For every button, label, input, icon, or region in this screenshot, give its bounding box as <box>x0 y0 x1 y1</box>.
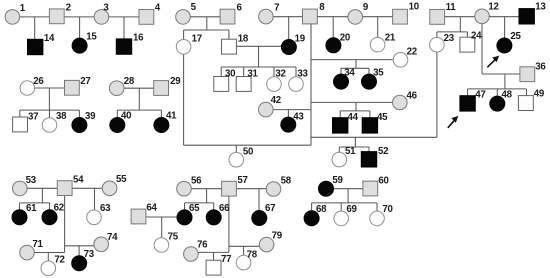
svg-text:66: 66 <box>219 203 230 214</box>
wire drop to 65 <box>184 203 186 218</box>
wire drop to 15 <box>79 17 81 46</box>
sibship 65-66 drop <box>206 189 208 203</box>
svg-text:47: 47 <box>475 89 485 100</box>
svg-text:68: 68 <box>316 204 327 215</box>
person 67 (female, affected) <box>252 203 275 226</box>
svg-text:59: 59 <box>332 175 343 186</box>
svg-text:14: 14 <box>44 33 55 44</box>
wire drop to 51 <box>338 147 340 160</box>
svg-text:49: 49 <box>534 88 545 99</box>
proband arrow pointing to 47 <box>448 116 459 128</box>
person 9 (female, carrier) <box>348 2 369 24</box>
couple stem below 57 <box>228 189 230 253</box>
person 43 (female, affected) <box>281 112 305 133</box>
svg-text:63: 63 <box>100 203 111 214</box>
couple line 26-27 <box>27 87 72 89</box>
svg-text:8: 8 <box>319 2 325 13</box>
svg-text:7: 7 <box>274 2 279 13</box>
svg-text:10: 10 <box>409 2 419 13</box>
person 7 (female, carrier) <box>259 2 280 24</box>
person 8 (male, carrier) <box>303 2 326 24</box>
person 74 (female, carrier) <box>94 232 118 252</box>
person 77 (male, unaffected) <box>206 254 231 275</box>
person 68 (female, affected) <box>304 204 327 226</box>
svg-text:22: 22 <box>407 46 417 57</box>
wire drop to 34 <box>340 68 342 81</box>
person 21 (female, unaffected) <box>370 33 396 52</box>
person 33 (female, unaffected) <box>289 68 309 91</box>
wire drop to 21 <box>377 17 379 45</box>
person 65 (female, affected) <box>177 203 200 225</box>
person 50 (female, unaffected) <box>229 147 253 168</box>
wire drop to 45 <box>369 111 371 126</box>
svg-text:25: 25 <box>510 31 521 42</box>
person 63 (female, unaffected) <box>87 203 111 225</box>
svg-text:67: 67 <box>265 203 275 214</box>
person 58 (female, carrier) <box>266 175 292 196</box>
wire drop to 75 <box>161 217 163 245</box>
sibship 40-41 drop <box>138 88 140 110</box>
svg-text:69: 69 <box>346 204 357 215</box>
svg-text:27: 27 <box>80 76 90 87</box>
wire drop to 25 <box>504 17 506 46</box>
sibship 44-45 bar <box>340 110 370 112</box>
svg-text:77: 77 <box>221 254 231 265</box>
person 59 (female, affected) <box>319 175 344 196</box>
svg-text:79: 79 <box>272 231 283 242</box>
wire drop to 69 <box>340 203 342 219</box>
svg-text:64: 64 <box>146 202 157 213</box>
svg-text:11: 11 <box>446 2 457 13</box>
wire drop to 40 <box>116 110 118 125</box>
person 70 (female, unaffected) <box>370 204 393 226</box>
person 23 (female, unaffected) <box>430 33 455 52</box>
svg-text:17: 17 <box>192 33 202 44</box>
person 55 (female, carrier) <box>102 174 127 196</box>
wire drop to 43 <box>287 110 289 125</box>
svg-text:75: 75 <box>168 232 179 243</box>
wire drop to 68 <box>311 203 313 218</box>
wire drop to 62 <box>49 203 51 217</box>
wire drop to 33 <box>295 67 297 84</box>
svg-text:44: 44 <box>348 112 359 123</box>
sibship 17-18 bar <box>184 29 229 31</box>
sibship 51-52 drop <box>354 137 356 147</box>
couple line 7-8-9-10 <box>266 16 400 18</box>
wire drop to 49 <box>526 89 528 103</box>
wire drop to 35 <box>368 68 370 81</box>
couple line 57-79 <box>229 245 267 247</box>
couple path 8-23 <box>311 45 437 138</box>
couple line 54-71 <box>27 252 65 254</box>
person 19 (female, affected) <box>281 33 305 54</box>
svg-text:16: 16 <box>133 32 144 43</box>
sibship 30-33 bar <box>221 66 296 68</box>
wire drop to 63 <box>94 188 96 217</box>
svg-text:43: 43 <box>293 112 304 123</box>
wire drop to 19 <box>288 17 290 47</box>
person 13 (male, affected) <box>519 2 546 24</box>
svg-text:50: 50 <box>243 147 253 158</box>
person 79 (female, carrier) <box>259 231 282 252</box>
couple line 8-46 <box>311 101 400 103</box>
person 15 (female, affected) <box>72 31 97 53</box>
wire drop to 30 <box>220 67 222 84</box>
svg-text:73: 73 <box>84 249 95 260</box>
sibship 68-70 drop <box>347 189 349 203</box>
wire drop to 44 <box>339 111 341 126</box>
person 26 (female, unaffected) <box>20 76 44 95</box>
person 30 (male, unaffected) <box>214 68 235 91</box>
wire drop to 17 <box>183 30 185 47</box>
person 37 (male, unaffected) <box>13 111 39 131</box>
wire drop to 52 <box>368 147 370 159</box>
person 51 (female, unaffected) <box>332 146 356 167</box>
person 16 (male, affected) <box>116 32 144 54</box>
svg-text:33: 33 <box>297 68 308 79</box>
proband arrow pointing to 25 <box>487 56 499 68</box>
wire drop to 73 <box>78 246 80 263</box>
svg-text:55: 55 <box>116 174 127 185</box>
svg-text:39: 39 <box>85 111 96 122</box>
couple line 42-8 <box>266 109 311 111</box>
person 29 (male, carrier) <box>154 76 182 95</box>
svg-text:42: 42 <box>271 95 281 106</box>
sibship 23-24 bar <box>437 31 468 33</box>
sibship 37-39 drop <box>48 88 50 110</box>
svg-text:2: 2 <box>66 3 71 14</box>
svg-text:19: 19 <box>295 33 306 44</box>
svg-text:31: 31 <box>247 68 258 79</box>
svg-text:37: 37 <box>28 111 38 122</box>
svg-text:18: 18 <box>238 33 249 44</box>
svg-text:32: 32 <box>275 68 285 79</box>
svg-text:60: 60 <box>378 175 388 186</box>
person 3 (female, carrier) <box>94 2 109 24</box>
couple line 11-12-13 <box>437 16 527 18</box>
svg-text:28: 28 <box>124 76 135 87</box>
person 22 (female, unaffected) <box>393 46 417 67</box>
svg-text:35: 35 <box>373 68 384 79</box>
person 76 (female, carrier) <box>184 239 209 261</box>
person 69 (female, unaffected) <box>334 204 358 226</box>
person 44 (male, affected) <box>333 112 359 133</box>
person 39 (female, affected) <box>72 111 96 133</box>
wire drop to 77 <box>213 252 215 267</box>
wire drop to 18 <box>228 30 230 47</box>
svg-text:40: 40 <box>121 111 131 122</box>
person 35 (female, affected) <box>362 68 385 89</box>
person 75 (female, unaffected) <box>154 232 179 253</box>
wire drop to 66 <box>213 203 215 218</box>
svg-text:51: 51 <box>345 146 356 157</box>
person 41 (female, affected) <box>154 111 177 133</box>
sibship 47-49 drop <box>504 74 506 89</box>
sibship 47-49 bar <box>468 88 527 90</box>
wire drop to 48 <box>496 89 498 104</box>
wire drop to 32 <box>273 67 275 84</box>
person 64 (male, carrier) <box>131 202 157 224</box>
person 66 (female, affected) <box>206 203 230 225</box>
person 62 (female, affected) <box>42 203 64 225</box>
person 73 (female, affected) <box>72 249 95 271</box>
svg-text:6: 6 <box>237 3 243 14</box>
svg-text:78: 78 <box>247 249 258 260</box>
svg-text:72: 72 <box>54 254 64 265</box>
couple line 54-74 <box>65 245 102 247</box>
svg-text:53: 53 <box>26 175 37 186</box>
wire drop to 47 <box>467 89 469 104</box>
svg-text:26: 26 <box>33 76 44 87</box>
person 27 (male, carrier) <box>65 76 91 95</box>
couple line 28-29 <box>117 87 161 89</box>
wire drop to 16 <box>123 17 125 47</box>
person 46 (female, carrier) <box>393 91 418 110</box>
wire drop to 14 <box>34 17 36 47</box>
person 14 (male, affected) <box>28 33 56 54</box>
couple line 1-2-3-4 <box>12 16 146 18</box>
svg-text:76: 76 <box>197 239 208 250</box>
person 28 (female, carrier) <box>109 76 134 95</box>
sibship 30-33 drop <box>258 46 260 67</box>
svg-text:57: 57 <box>237 175 247 186</box>
person 45 (male, affected) <box>362 112 388 133</box>
person 53 (female, carrier) <box>12 175 36 196</box>
svg-text:13: 13 <box>535 2 546 13</box>
couple line 57-76 <box>191 251 229 253</box>
sibship 68-70 bar <box>312 202 377 204</box>
person 36 (male, carrier) <box>520 62 546 82</box>
person 17 (female, unaffected) <box>176 33 202 54</box>
wire drop to 31 <box>243 67 245 84</box>
couple line 64-65 <box>139 216 185 218</box>
person 56 (female, carrier) <box>177 175 202 196</box>
sibship 23-24 drop <box>459 17 461 32</box>
svg-text:38: 38 <box>56 111 67 122</box>
sibship 37-39 bar <box>20 109 80 111</box>
svg-text:54: 54 <box>73 175 84 186</box>
svg-text:24: 24 <box>471 30 482 41</box>
svg-text:9: 9 <box>363 2 369 13</box>
svg-text:48: 48 <box>502 89 513 100</box>
person 24 (male, unaffected) <box>460 30 482 52</box>
person 38 (female, unaffected) <box>42 111 67 132</box>
wire drop to 24 <box>466 32 468 45</box>
svg-text:71: 71 <box>32 239 43 250</box>
person 20 (female, affected) <box>326 33 350 53</box>
svg-text:45: 45 <box>377 112 388 123</box>
svg-text:56: 56 <box>191 175 202 186</box>
person 49 (male, unaffected) <box>518 88 544 110</box>
sibship 17-18 drop <box>206 17 208 30</box>
person 6 (male, carrier) <box>220 3 242 25</box>
couple line 18-19 <box>229 45 289 47</box>
svg-text:36: 36 <box>535 62 546 73</box>
svg-text:62: 62 <box>54 203 64 214</box>
svg-text:23: 23 <box>444 33 455 44</box>
couple path 12-36 <box>482 16 527 74</box>
couple stem below 54 <box>64 188 66 252</box>
sibship 44-45 drop <box>355 102 357 111</box>
person 72 (female, unaffected) <box>41 254 65 275</box>
svg-text:1: 1 <box>20 3 26 14</box>
svg-text:34: 34 <box>344 68 355 79</box>
person 10 (male, carrier) <box>393 2 419 24</box>
svg-text:30: 30 <box>225 68 235 79</box>
wire drop to 41 <box>160 110 162 125</box>
person 34 (female, affected) <box>334 68 356 89</box>
couple line 59-60 <box>326 188 370 190</box>
person 71 (female, carrier) <box>20 239 44 260</box>
wire drop to 70 <box>376 203 378 219</box>
sibship 34-35 bar <box>341 67 369 69</box>
svg-text:20: 20 <box>340 33 350 44</box>
svg-text:12: 12 <box>488 2 498 13</box>
person 32 (female, unaffected) <box>267 68 286 91</box>
person 42 (female, carrier) <box>259 95 281 117</box>
sibship 65-66 bar <box>185 202 214 204</box>
wire drop to 20 <box>332 17 334 46</box>
svg-text:61: 61 <box>26 203 37 214</box>
svg-text:21: 21 <box>385 33 396 44</box>
wire drop to 38 <box>49 110 51 125</box>
sibship 51-52 bar <box>339 146 369 148</box>
wire drop to 50 <box>235 145 237 160</box>
person 57 (male, carrier) <box>222 175 248 196</box>
person 18 (male, unaffected) <box>222 33 249 54</box>
person 47 (male, affected) <box>460 89 486 111</box>
person 12 (female, carrier) <box>475 2 499 24</box>
sibship 61-62 bar <box>20 202 50 204</box>
couple line 5-6 <box>183 16 228 18</box>
svg-text:3: 3 <box>103 2 109 13</box>
sibship 61-62 drop <box>41 188 43 203</box>
person 4 (male, carrier) <box>139 2 161 24</box>
svg-text:4: 4 <box>155 2 161 13</box>
wire drop to 61 <box>19 203 21 217</box>
person 54 (male, carrier) <box>57 175 84 196</box>
wire drop to 67 <box>258 189 260 218</box>
svg-text:70: 70 <box>382 204 392 215</box>
sibship 34-35 drop <box>355 60 357 69</box>
person 2 (male, carrier) <box>49 3 70 24</box>
svg-text:29: 29 <box>170 76 181 87</box>
couple line 8-22 <box>311 59 401 61</box>
person 61 (female, affected) <box>12 203 37 225</box>
person 11 (male, carrier) <box>430 2 456 24</box>
person 5 (female, carrier) <box>176 2 197 24</box>
person 48 (female, affected) <box>490 89 513 111</box>
couple line 56-57-58 <box>184 188 274 190</box>
svg-text:74: 74 <box>107 232 118 243</box>
svg-text:58: 58 <box>281 175 292 186</box>
svg-text:52: 52 <box>378 146 388 157</box>
svg-text:65: 65 <box>189 203 200 214</box>
svg-text:46: 46 <box>407 91 418 102</box>
person 78 (female, unaffected) <box>236 249 257 270</box>
wire drop to 78 <box>243 246 245 262</box>
person 31 (male, unaffected) <box>236 68 258 91</box>
person 25 (female, affected) <box>497 31 522 53</box>
wire drop to 23 <box>436 32 438 45</box>
couple line 53-54-55 <box>20 187 110 189</box>
person 40 (female, affected) <box>110 111 131 133</box>
svg-text:15: 15 <box>86 31 97 42</box>
svg-text:41: 41 <box>166 111 177 122</box>
couple path 8-17 box <box>184 17 311 146</box>
svg-text:5: 5 <box>191 2 197 13</box>
wire drop to 37 <box>19 110 21 124</box>
person 1 (female, carrier) <box>5 3 26 24</box>
wire drop to 39 <box>78 110 80 125</box>
person 60 (male, carrier) <box>363 175 389 196</box>
person 52 (male, affected) <box>361 146 388 167</box>
sibship 40-41 bar <box>117 109 161 111</box>
wire drop to 72 <box>47 253 49 269</box>
